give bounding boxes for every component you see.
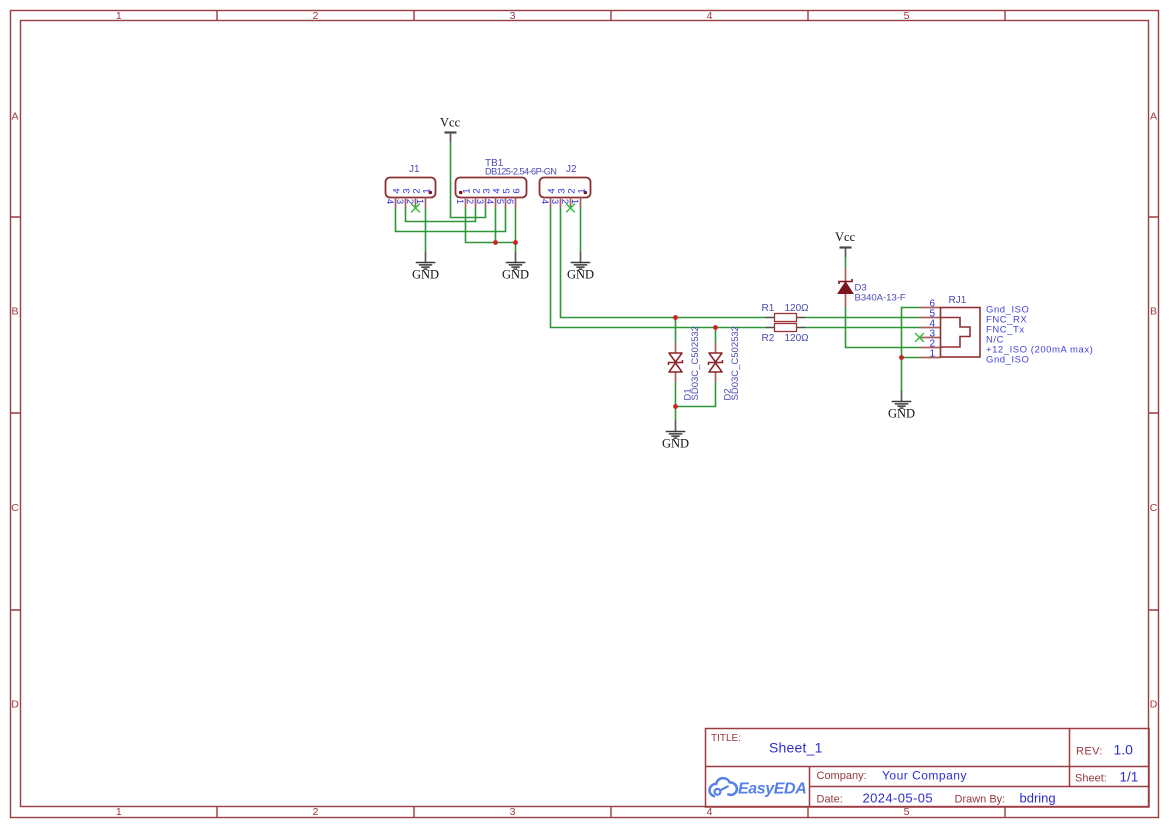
svg-text:DB125-2.54-6P-GN: DB125-2.54-6P-GN xyxy=(485,167,556,177)
R1 pin leads xyxy=(766,317,806,319)
svg-text:6: 6 xyxy=(512,188,523,193)
J1 body xyxy=(386,178,436,198)
wire J2 pin1 to GND xyxy=(580,208,582,253)
svg-text:120Ω: 120Ω xyxy=(785,333,810,344)
svg-text:2024-05-05: 2024-05-05 xyxy=(863,791,934,806)
connector J1 xyxy=(384,164,436,212)
junction D1 bottom xyxy=(673,404,678,409)
D3 schottky cathode bar xyxy=(839,279,852,284)
svg-text:6: 6 xyxy=(504,199,515,204)
no-connect X on J1 pin 2 xyxy=(411,204,420,213)
ground GND (TB1 pin6) xyxy=(502,253,529,282)
wire J1 pin1 to GND xyxy=(425,208,427,253)
svg-text:C: C xyxy=(1150,502,1158,514)
svg-text:4: 4 xyxy=(484,199,495,204)
frame right ruler ticks xyxy=(1149,217,1159,610)
D3 anode triangle xyxy=(838,282,853,294)
pin-1 dot TB1 xyxy=(459,191,463,195)
svg-text:Vcc: Vcc xyxy=(440,116,461,130)
svg-text:Date:: Date: xyxy=(817,794,843,806)
Vcc bar xyxy=(445,131,457,133)
svg-text:120Ω: 120Ω xyxy=(785,303,810,314)
wire RJ1 pin1 to GND xyxy=(902,358,921,392)
svg-text:D: D xyxy=(1150,699,1158,711)
ground GND (D1/D2) xyxy=(662,422,689,451)
TB1 pin stubs xyxy=(466,198,516,208)
wire Vcc to TB1 pin 3 xyxy=(451,143,486,218)
connector TB1 xyxy=(454,158,556,208)
wire J1 pin4 to TB1 pin5 xyxy=(396,208,506,232)
svg-text:1: 1 xyxy=(116,806,122,818)
svg-text:Gnd_ISO: Gnd_ISO xyxy=(986,355,1029,366)
svg-text:4: 4 xyxy=(707,806,713,818)
EasyEDA logo xyxy=(709,778,736,796)
power symbol Vcc (above D3) xyxy=(835,230,856,257)
R2 body xyxy=(775,324,797,332)
svg-text:1: 1 xyxy=(454,199,465,204)
D1 crossbar xyxy=(669,360,683,365)
wire TB1 pin1 to node GNDbus xyxy=(466,208,516,243)
TB1 pin numbers 1-6 xyxy=(454,199,515,204)
svg-text:2: 2 xyxy=(313,806,319,818)
pin-1 dot J1 xyxy=(429,191,433,195)
wire J2 pin4 to R2 xyxy=(551,208,766,328)
resistor R2 120ohm xyxy=(762,324,810,345)
J1 pin stubs xyxy=(396,198,426,208)
wire D1 node to GND xyxy=(675,407,677,422)
wire Vcc to D3 cathode xyxy=(845,257,847,268)
wire D1 anode up to net xyxy=(675,318,677,344)
svg-text:GND: GND xyxy=(412,268,439,282)
no-connect X on RJ1 pin 3 xyxy=(915,333,924,342)
J2 pin numbers 4 3 2 1 xyxy=(539,199,580,204)
svg-text:A: A xyxy=(1150,111,1157,123)
svg-text:5: 5 xyxy=(494,199,505,204)
D2 crossbar xyxy=(709,360,723,365)
D1 TVS triangles xyxy=(669,353,682,372)
svg-text:3: 3 xyxy=(474,199,485,204)
wire TB1 pin6 to GND xyxy=(515,208,517,253)
wire RJ1 pin6 to node xyxy=(902,308,921,358)
J1 pin names 4 3 2 1 xyxy=(392,188,433,193)
svg-text:2: 2 xyxy=(404,199,415,204)
svg-text:1: 1 xyxy=(116,10,122,22)
net label Gnd_ISO pin6 xyxy=(986,305,1093,366)
svg-text:Your Company: Your Company xyxy=(882,768,967,782)
diode D2 TVS SD03C_C502532 xyxy=(709,326,742,400)
svg-text:1: 1 xyxy=(422,188,433,193)
RJ1 jack profile xyxy=(941,318,971,348)
TB1 pin names 1-6 xyxy=(462,188,523,193)
ground GND (J2 pin1) xyxy=(567,253,594,282)
svg-text:Sheet:: Sheet: xyxy=(1075,773,1107,785)
svg-text:5: 5 xyxy=(904,10,910,22)
Vcc bar (above D3) xyxy=(840,246,852,248)
R1 body xyxy=(775,314,797,322)
RJ1 pin numbers 6-1 xyxy=(929,298,935,359)
Vcc lead xyxy=(450,133,452,143)
svg-text:1: 1 xyxy=(577,188,588,193)
D1 pin leads xyxy=(675,343,677,382)
svg-text:1.0: 1.0 xyxy=(1114,742,1134,758)
svg-text:RJ1: RJ1 xyxy=(949,295,967,306)
Vcc lead (above D3) xyxy=(845,248,847,258)
svg-text:SD03C_C502532: SD03C_C502532 xyxy=(730,326,741,400)
J1 pin numbers 4 3 2 1 xyxy=(384,199,425,204)
svg-text:D: D xyxy=(11,699,19,711)
resistor R1 120ohm xyxy=(762,303,810,322)
J2 body xyxy=(540,178,591,198)
svg-text:EasyEDA: EasyEDA xyxy=(738,781,806,798)
title block xyxy=(706,729,1150,808)
svg-text:J2: J2 xyxy=(566,164,577,175)
wire D3 anode to RJ1 pin2 xyxy=(846,307,921,348)
junction D2 top xyxy=(713,325,718,330)
junction RJ1 pin1/pin6 xyxy=(899,355,904,360)
svg-text:2: 2 xyxy=(559,199,570,204)
J2 pin stubs xyxy=(551,198,581,208)
D3 pin leads xyxy=(845,268,847,307)
svg-text:R2: R2 xyxy=(762,333,775,344)
svg-text:A: A xyxy=(11,111,18,123)
svg-text:J1: J1 xyxy=(409,164,420,175)
svg-text:TITLE:: TITLE: xyxy=(711,733,741,744)
connector RJ1 xyxy=(915,295,1093,366)
wire J2 pin3 to R1 xyxy=(561,208,766,318)
no-connect X on J2 pin 2 xyxy=(566,204,575,213)
RJ1 pin stubs xyxy=(921,308,941,358)
wire R1 to RJ1 pin5 xyxy=(806,317,921,319)
wire J1 pin3 to TB1 pin2 xyxy=(406,208,476,222)
junction TB1 pin6 xyxy=(513,240,518,245)
svg-text:Sheet_1: Sheet_1 xyxy=(769,739,823,755)
D2 pin leads xyxy=(715,343,717,382)
svg-text:3: 3 xyxy=(394,199,405,204)
ground GND (J1 pin1) xyxy=(412,253,439,282)
svg-text:Company:: Company: xyxy=(817,770,867,782)
svg-text:1: 1 xyxy=(929,348,935,359)
svg-text:B: B xyxy=(11,306,18,318)
frame bottom ruler ticks xyxy=(217,807,1005,818)
pin-1 dot J2 xyxy=(584,191,588,195)
TB1 body xyxy=(456,178,527,198)
svg-text:3: 3 xyxy=(510,806,516,818)
svg-text:2: 2 xyxy=(313,10,319,22)
svg-text:1/1: 1/1 xyxy=(1120,770,1139,785)
wire R2 to RJ1 pin4 xyxy=(806,327,921,329)
svg-text:4: 4 xyxy=(384,199,395,204)
junction TB1 pin4 xyxy=(493,240,498,245)
svg-text:SD03C_C502532: SD03C_C502532 xyxy=(690,326,701,400)
svg-text:B: B xyxy=(1150,306,1157,318)
svg-text:C: C xyxy=(11,502,19,514)
R2 pin leads xyxy=(766,327,806,329)
svg-text:4: 4 xyxy=(707,10,713,22)
svg-text:bdring: bdring xyxy=(1020,790,1056,805)
svg-text:Drawn By:: Drawn By: xyxy=(955,793,1006,805)
frame top ruler ticks xyxy=(217,11,1005,21)
RJ1 body xyxy=(941,308,981,358)
svg-text:B340A-13-F: B340A-13-F xyxy=(855,293,906,304)
connector J2 xyxy=(539,164,591,212)
svg-text:4: 4 xyxy=(539,199,550,204)
diode D3 schottky B340A-13-F xyxy=(838,268,906,307)
J2 pin names 4 3 2 1 xyxy=(547,188,588,193)
svg-text:3: 3 xyxy=(510,10,516,22)
svg-text:Vcc: Vcc xyxy=(835,230,856,244)
svg-text:3: 3 xyxy=(549,199,560,204)
wire D2 anode up to net xyxy=(715,328,717,344)
diode D1 TVS SD03C_C502532 xyxy=(669,326,702,400)
ground GND (RJ1 pin1) xyxy=(888,392,915,421)
junction D1 top xyxy=(673,315,678,320)
svg-text:REV:: REV: xyxy=(1076,746,1103,758)
power symbol Vcc (net Vcc, above TB1) xyxy=(440,116,461,143)
wire D1 bottom to D2 bottom xyxy=(676,382,716,407)
D2 TVS triangles xyxy=(709,353,722,372)
svg-text:5: 5 xyxy=(904,806,910,818)
wire TB1 pin4 to node GNDbus xyxy=(495,208,497,243)
svg-text:2: 2 xyxy=(464,199,475,204)
svg-text:R1: R1 xyxy=(762,303,775,314)
frame left ruler ticks xyxy=(11,217,21,610)
